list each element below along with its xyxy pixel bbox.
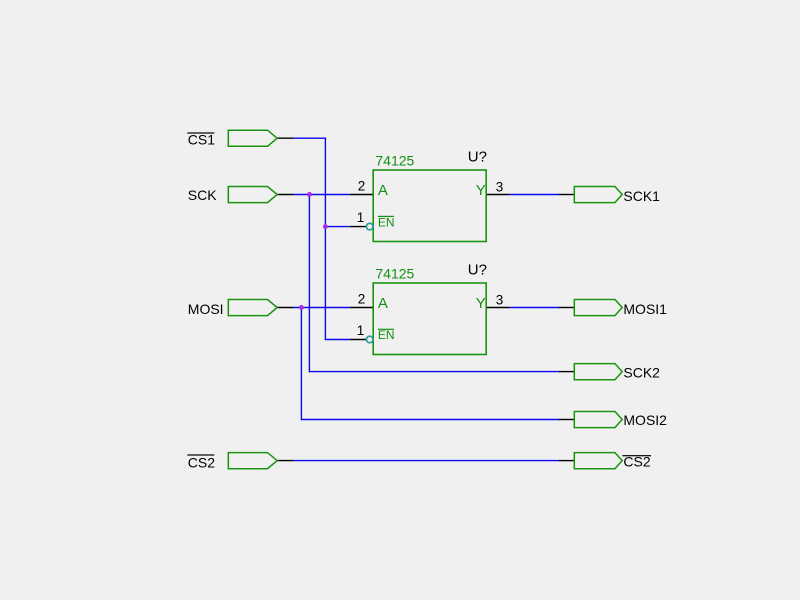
svg-text:U?: U?	[468, 149, 487, 166]
svg-text:SCK2: SCK2	[623, 364, 660, 380]
port stub SCK	[277, 194, 293, 196]
buffer U2 EN overline	[378, 329, 394, 330]
port stub MOSI2	[559, 419, 574, 421]
svg-text:SCK: SCK	[188, 187, 217, 203]
pin U2.Y stub	[486, 307, 509, 309]
svg-text:Y: Y	[476, 182, 486, 199]
svg-text:1: 1	[357, 210, 365, 225]
input port CS2 shape	[228, 453, 277, 469]
wire MOSI vertical	[300, 308, 302, 421]
buffer U2 body	[373, 283, 486, 355]
buffer U1 EN overline	[378, 216, 394, 217]
svg-text:CS2: CS2	[188, 454, 215, 470]
input port MOSI shape	[228, 300, 277, 316]
wire SCK vertical	[308, 195, 310, 373]
svg-text:1: 1	[357, 323, 365, 338]
port stub MOSI1	[559, 307, 574, 309]
buffer U1 EN bubble	[366, 223, 373, 230]
svg-text:74125: 74125	[375, 153, 414, 169]
junction EN1	[323, 224, 328, 229]
input port CS2 label overline	[187, 454, 214, 455]
input port CS1 label overline	[187, 132, 214, 133]
svg-text:3: 3	[496, 179, 504, 194]
wire EN1 branch	[325, 226, 349, 228]
port stub CS2 right	[559, 460, 574, 462]
port stub CS2 left	[277, 460, 293, 462]
port stub SCK1	[559, 194, 574, 196]
svg-text:Y: Y	[476, 295, 486, 312]
svg-text:A: A	[378, 182, 388, 199]
svg-text:A: A	[378, 295, 388, 312]
input port SCK shape	[228, 187, 277, 203]
svg-text:U?: U?	[468, 262, 487, 279]
svg-text:74125: 74125	[375, 266, 414, 282]
port stub SCK2	[559, 371, 574, 373]
wire SCK horizontal	[293, 194, 350, 196]
output port MOSI2 shape	[574, 412, 622, 428]
svg-text:2: 2	[358, 292, 366, 307]
output port SCK1 shape	[574, 187, 622, 203]
wire MOSI horizontal	[293, 307, 350, 309]
svg-text:MOSI1: MOSI1	[623, 301, 667, 317]
wire EN2 branch	[325, 339, 350, 341]
svg-text:MOSI: MOSI	[188, 301, 224, 317]
wire CS1 horizontal	[293, 137, 326, 139]
wire MOSI2 horizontal	[301, 419, 559, 421]
junction SCK	[307, 192, 312, 197]
wire SCK2 horizontal	[309, 371, 559, 373]
pin U2.A stub	[350, 307, 373, 309]
svg-text:MOSI2: MOSI2	[623, 412, 667, 428]
buffer U1 body	[373, 170, 486, 242]
buffer U2 EN bubble	[366, 336, 373, 343]
port stub MOSI	[277, 307, 293, 309]
svg-text:2: 2	[358, 179, 366, 194]
svg-text:CS1: CS1	[188, 132, 215, 148]
output port SCK2 shape	[574, 364, 622, 380]
wire CS2 horizontal	[293, 460, 560, 462]
pin U1.EN stub	[350, 226, 367, 228]
output port CS2 label overline	[622, 455, 651, 456]
wire Y1 to SCK1	[509, 194, 559, 196]
pin U2.EN stub	[350, 339, 367, 341]
pin U1.A stub	[350, 194, 373, 196]
svg-text:3: 3	[496, 292, 504, 307]
output port CS2 shape	[574, 453, 622, 469]
wire CS1 vertical	[324, 138, 326, 339]
output port MOSI1 shape	[574, 300, 622, 316]
pin U1.Y stub	[486, 194, 509, 196]
svg-text:EN: EN	[378, 215, 395, 229]
junction MOSI	[299, 305, 304, 310]
svg-text:EN: EN	[378, 328, 395, 342]
input port CS1 shape	[228, 130, 277, 146]
port stub CS1	[277, 137, 293, 139]
wire Y2 to MOSI1	[509, 307, 559, 309]
svg-text:SCK1: SCK1	[623, 188, 660, 204]
